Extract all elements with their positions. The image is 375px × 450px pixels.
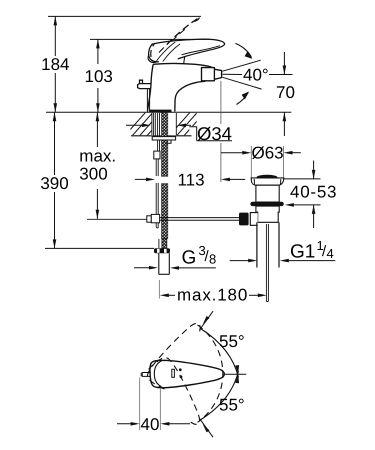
extension lines from flange up to Ø63 dim <box>250 146 252 178</box>
rod lower tip <box>156 222 158 228</box>
pop-up rod connector <box>154 151 160 159</box>
handle detail marks <box>172 368 183 378</box>
body below O-ring <box>256 206 279 222</box>
svg-text:55°: 55° <box>219 332 245 351</box>
braided hose <box>162 113 168 177</box>
O-ring <box>250 202 283 206</box>
spout vertical extension line <box>220 81 222 124</box>
locknut below deck <box>152 137 175 140</box>
deck slab with hatching <box>121 104 220 140</box>
G 3/8 label <box>134 243 216 270</box>
deck datum line <box>46 111 291 113</box>
solid lever (side view) <box>148 39 225 63</box>
dashed raised lever <box>151 18 199 58</box>
svg-text:8: 8 <box>209 252 216 267</box>
solid handle top view <box>150 360 224 387</box>
shank, studs, hose through deck <box>152 113 176 275</box>
neck <box>256 185 279 202</box>
dimension 390 <box>40 112 68 248</box>
centerline right <box>224 373 246 375</box>
rod continues <box>155 159 157 176</box>
tip sweep arc <box>198 325 223 422</box>
svg-text:G: G <box>182 247 197 268</box>
housing top edge <box>153 63 212 67</box>
pop-up knob <box>138 80 151 112</box>
body outline left <box>148 64 154 111</box>
Ø34 label <box>189 123 232 144</box>
spray fan 40 deg <box>223 60 262 89</box>
svg-text:4: 4 <box>327 246 334 261</box>
dimension 113 <box>135 170 245 189</box>
knob housing left <box>250 213 257 226</box>
70 dim <box>269 52 295 136</box>
flange <box>251 178 284 185</box>
svg-text:max.: max. <box>79 147 116 166</box>
40 dim bottom <box>117 378 190 434</box>
svg-text:max.180: max.180 <box>177 286 248 305</box>
hose nut <box>154 248 170 253</box>
pop-up rod pair <box>157 113 159 151</box>
supply tube G3/8 <box>158 253 160 274</box>
mask hole <box>152 113 177 135</box>
dimension max.300 <box>79 112 116 219</box>
hose end datum line <box>45 247 154 249</box>
deck hole left edge <box>151 113 153 135</box>
svg-text:Ø63: Ø63 <box>252 144 284 163</box>
deck hole right edge <box>175 113 177 135</box>
Ø34 arrows in deck <box>126 124 191 128</box>
max.180 dim <box>159 280 266 305</box>
dimension 103 <box>85 39 113 112</box>
top datum line (lever raised tip) <box>48 15 201 17</box>
svg-text:40°: 40° <box>243 66 269 85</box>
dimension 184 <box>41 16 69 112</box>
40-53 dim <box>284 161 337 229</box>
base plinth dark band <box>150 110 172 113</box>
svg-text:55°: 55° <box>219 396 245 415</box>
G1 1/4 label <box>230 238 336 263</box>
drain assembly <box>221 144 301 302</box>
pin at left <box>141 373 151 377</box>
svg-text:G1: G1 <box>290 242 315 263</box>
body right edge lower <box>175 81 206 111</box>
svg-text:103: 103 <box>85 67 113 86</box>
svg-text:113: 113 <box>177 170 204 189</box>
datum line 103 (lever top) <box>90 38 209 40</box>
swing arcs 55deg <box>200 311 239 437</box>
svg-text:40: 40 <box>141 415 160 434</box>
svg-text:300: 300 <box>79 165 107 184</box>
svg-text:184: 184 <box>41 55 69 74</box>
knob at drain <box>239 213 249 226</box>
faucet body <box>148 63 222 111</box>
tailpipe <box>256 222 258 267</box>
40 deg arc arrows <box>236 43 252 104</box>
dashed swing envelope <box>145 316 223 429</box>
svg-text:70: 70 <box>276 83 295 102</box>
plug dome <box>257 175 278 180</box>
plunger rod <box>265 224 267 301</box>
hose end fitting <box>162 239 167 248</box>
svg-text:Ø34: Ø34 <box>197 123 232 144</box>
svg-text:390: 390 <box>40 174 68 193</box>
Ø63 dim <box>221 152 248 154</box>
svg-text:40-53: 40-53 <box>290 183 337 202</box>
horizontal pop-up rod <box>87 213 249 226</box>
mounting stud pair <box>153 113 155 137</box>
spout nozzle <box>202 68 222 81</box>
